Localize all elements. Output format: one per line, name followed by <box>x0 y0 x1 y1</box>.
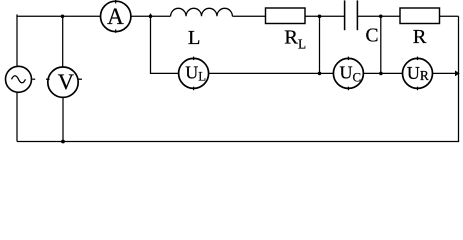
svg-text:UC: UC <box>340 63 362 85</box>
wire top-left from corner to ammeter <box>17 14 101 16</box>
wire right vertical <box>458 16 460 141</box>
wire RL to capacitor <box>305 15 345 17</box>
voltmeter UC circle <box>333 58 363 88</box>
wire R to top-right corner <box>440 15 459 17</box>
voltmeter UL bottom tick <box>193 87 195 91</box>
svg-text:UL: UL <box>185 63 206 84</box>
wire bottom <box>17 141 459 143</box>
wire source bottom <box>16 92 18 141</box>
node D2 (junction dot between UC and UR) <box>379 72 383 76</box>
voltmeter UR bottom tick <box>417 87 419 91</box>
voltmeter V left tick <box>46 78 50 80</box>
voltmeter V circle <box>48 67 78 97</box>
svg-text:C: C <box>365 25 378 46</box>
ammeter A top tick <box>115 0 117 3</box>
node C2 (junction dot on UL branch) <box>318 72 322 76</box>
voltmeter UC top tick <box>347 57 349 61</box>
voltmeter UL top tick <box>193 57 195 61</box>
AC source sine symbol <box>12 76 26 83</box>
ammeter A circle <box>101 1 131 31</box>
node C1 (junction dot right of RL) <box>318 14 322 18</box>
svg-text:RL: RL <box>284 26 306 51</box>
wire ammeter to node B <box>131 15 171 17</box>
wire V-branch bottom <box>62 97 64 141</box>
voltmeter UC bottom tick <box>347 87 349 91</box>
wire UC to UR <box>363 72 402 74</box>
voltmeter UR circle <box>403 58 433 88</box>
ammeter A bottom tick <box>115 29 117 32</box>
svg-text:A: A <box>107 4 124 29</box>
resistor RL box <box>266 8 306 24</box>
node E (junction dot V-branch bottom) <box>61 140 65 144</box>
wire node B down and to voltmeter UL <box>151 14 179 74</box>
wire node C1 down <box>319 16 321 73</box>
voltmeter UL circle <box>179 58 209 88</box>
AC source right tick <box>32 78 35 80</box>
node B (junction dot left of L section) <box>149 14 153 18</box>
arrow junction UR branch to right wire <box>455 71 460 77</box>
wire coil to resistor RL <box>232 15 265 17</box>
svg-text:R: R <box>413 26 427 48</box>
wire V-branch top <box>62 16 64 67</box>
AC source G1 circle <box>6 66 32 92</box>
wire capacitor to resistor R <box>357 15 400 17</box>
wire source top <box>16 16 18 66</box>
node A (junction dot V-branch top) <box>61 14 65 18</box>
capacitor C right plate <box>356 0 358 30</box>
inductor L coil <box>171 8 233 16</box>
wire UR to right vertical <box>433 72 456 74</box>
wire node D1 down <box>380 16 382 73</box>
svg-text:UR: UR <box>407 63 429 83</box>
node D1 (junction dot between C and R) <box>379 14 383 18</box>
wire UL to UC <box>209 72 334 74</box>
svg-text:L: L <box>188 27 201 49</box>
resistor R box <box>400 8 440 24</box>
svg-text:V: V <box>58 69 74 94</box>
voltmeter UR top tick <box>417 57 419 61</box>
voltmeter V right tick <box>78 78 82 80</box>
capacitor C left plate <box>344 0 346 30</box>
